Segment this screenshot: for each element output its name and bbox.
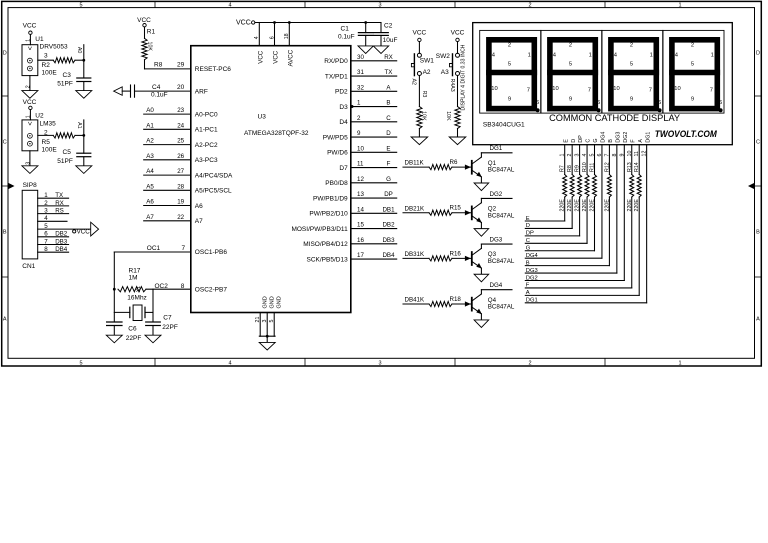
svg-text:C1: C1 <box>341 25 350 32</box>
svg-text:10K: 10K <box>146 42 152 52</box>
svg-text:DG1: DG1 <box>490 145 503 152</box>
svg-text:D4: D4 <box>339 119 348 126</box>
svg-text:A4/PC4/SDA: A4/PC4/SDA <box>195 172 233 179</box>
svg-text:8: 8 <box>44 246 48 253</box>
svg-text:G: G <box>593 138 599 142</box>
svg-text:0.1uF: 0.1uF <box>151 92 168 99</box>
svg-text:R9: R9 <box>575 165 581 172</box>
svg-text:DB2: DB2 <box>382 222 395 229</box>
svg-text:R7: R7 <box>560 165 566 172</box>
svg-text:5: 5 <box>44 223 48 230</box>
svg-text:OSC1-PB6: OSC1-PB6 <box>195 249 228 256</box>
svg-text:DG4: DG4 <box>526 253 539 259</box>
svg-text:DRV5053: DRV5053 <box>40 44 68 51</box>
svg-text:DG1: DG1 <box>526 298 538 304</box>
svg-text:DB21K: DB21K <box>405 205 425 212</box>
svg-text:DG1: DG1 <box>645 132 651 143</box>
svg-text:SW1: SW1 <box>420 58 434 65</box>
svg-text:1: 1 <box>589 52 592 58</box>
svg-text:R8: R8 <box>154 62 163 69</box>
svg-text:R13: R13 <box>627 162 633 172</box>
svg-text:3: 3 <box>44 53 48 60</box>
svg-text:1: 1 <box>711 52 714 58</box>
svg-text:R16: R16 <box>450 250 462 257</box>
svg-text:A5: A5 <box>146 183 154 190</box>
svg-text:VCC: VCC <box>273 50 280 64</box>
svg-text:PW/PB2/D10: PW/PB2/D10 <box>309 211 348 218</box>
svg-text:D: D <box>3 51 7 57</box>
svg-text:B: B <box>526 260 530 266</box>
svg-text:1: 1 <box>678 2 681 8</box>
svg-text:7: 7 <box>527 88 530 94</box>
svg-text:C: C <box>386 115 391 122</box>
svg-text:G: G <box>526 246 531 252</box>
svg-text:5: 5 <box>630 61 633 67</box>
svg-text:51PF: 51PF <box>57 81 73 88</box>
svg-text:0.1uF: 0.1uF <box>338 34 355 41</box>
svg-text:19: 19 <box>177 199 184 206</box>
svg-text:51PF: 51PF <box>57 158 73 165</box>
svg-text:5: 5 <box>79 2 82 8</box>
svg-text:DB11K: DB11K <box>405 160 425 167</box>
svg-text:U2: U2 <box>35 113 44 120</box>
svg-text:DB1: DB1 <box>382 206 395 213</box>
svg-text:BC847AL: BC847AL <box>488 167 515 174</box>
svg-text:C2: C2 <box>384 23 393 30</box>
svg-text:GND: GND <box>277 296 283 308</box>
svg-text:ATMEGA328TQPF-32: ATMEGA328TQPF-32 <box>244 130 309 137</box>
svg-text:9: 9 <box>630 97 633 103</box>
svg-text:9: 9 <box>357 130 361 137</box>
svg-text:PW/PB1/D9: PW/PB1/D9 <box>313 195 348 202</box>
svg-text:4: 4 <box>228 2 231 8</box>
svg-text:2: 2 <box>630 42 633 48</box>
svg-text:220E: 220E <box>627 199 633 212</box>
svg-text:5: 5 <box>508 61 511 67</box>
svg-text:X1: X1 <box>136 286 142 292</box>
svg-text:A6: A6 <box>146 199 154 206</box>
svg-text:1M: 1M <box>129 275 138 282</box>
svg-text:GND: GND <box>263 296 269 308</box>
svg-text:VCC: VCC <box>23 22 37 29</box>
svg-text:F: F <box>526 283 530 289</box>
svg-text:D3: D3 <box>339 104 348 111</box>
svg-text:R15: R15 <box>450 205 462 212</box>
svg-text:MOSI/PW/PB3/D11: MOSI/PW/PB3/D11 <box>291 226 348 233</box>
svg-text:DP: DP <box>526 231 534 237</box>
svg-text:7: 7 <box>588 88 591 94</box>
svg-text:BC847AL: BC847AL <box>488 258 515 265</box>
svg-text:11: 11 <box>357 161 364 168</box>
svg-text:24: 24 <box>177 122 184 129</box>
svg-text:>: > <box>25 46 32 50</box>
svg-text:10: 10 <box>491 86 497 92</box>
svg-text:2: 2 <box>508 42 511 48</box>
svg-text:DB31K: DB31K <box>405 251 425 258</box>
svg-text:1: 1 <box>650 52 653 58</box>
svg-text:GND: GND <box>270 296 276 308</box>
svg-text:A: A <box>526 290 530 296</box>
svg-text:D: D <box>571 139 577 143</box>
svg-text:BC847AL: BC847AL <box>488 304 515 311</box>
svg-text:A2: A2 <box>423 69 431 76</box>
svg-text:5: 5 <box>79 360 82 366</box>
svg-text:CN1: CN1 <box>22 263 35 270</box>
svg-text:A2: A2 <box>411 79 417 86</box>
svg-text:3: 3 <box>378 360 381 366</box>
svg-text:220E: 220E <box>575 199 581 212</box>
svg-text:100E: 100E <box>42 147 58 154</box>
svg-text:5: 5 <box>569 61 572 67</box>
svg-text:3: 3 <box>378 2 381 8</box>
svg-text:VCC: VCC <box>413 30 427 37</box>
svg-text:3: 3 <box>44 208 48 215</box>
svg-text:SB3404CUG1: SB3404CUG1 <box>483 122 525 129</box>
svg-text:4: 4 <box>228 360 231 366</box>
svg-text:2: 2 <box>528 2 531 8</box>
svg-text:5: 5 <box>269 320 275 323</box>
svg-text:4: 4 <box>254 36 260 39</box>
svg-text:7: 7 <box>44 238 48 245</box>
svg-text:7: 7 <box>710 88 713 94</box>
svg-text:BC847AL: BC847AL <box>488 212 515 219</box>
svg-text:18: 18 <box>284 33 290 39</box>
svg-text:10: 10 <box>552 86 558 92</box>
svg-text:220E: 220E <box>567 199 573 212</box>
svg-text:DG3: DG3 <box>615 132 621 143</box>
svg-text:A0: A0 <box>76 47 82 54</box>
svg-text:F: F <box>387 161 391 168</box>
svg-text:VCC: VCC <box>236 19 251 26</box>
svg-text:DP: DP <box>384 191 393 198</box>
svg-text:A2-PC2: A2-PC2 <box>195 142 218 149</box>
svg-text:C5: C5 <box>63 149 72 156</box>
svg-text:3: 3 <box>262 320 268 323</box>
svg-text:10: 10 <box>613 86 619 92</box>
svg-text:10K: 10K <box>421 111 427 121</box>
svg-text:25: 25 <box>177 138 184 145</box>
svg-text:220E: 220E <box>604 199 610 212</box>
svg-text:A4: A4 <box>146 168 154 175</box>
svg-text:RX: RX <box>384 54 393 61</box>
svg-text:PW/D6: PW/D6 <box>327 150 348 157</box>
svg-text:10uF: 10uF <box>383 37 398 44</box>
svg-text:220E: 220E <box>634 199 640 212</box>
svg-text:A6: A6 <box>195 203 203 210</box>
svg-text:220E: 220E <box>582 199 588 212</box>
svg-text:PW/PD5: PW/PD5 <box>323 134 348 141</box>
svg-text:DISPLAY 4 DIGIT 0.33 INCH: DISPLAY 4 DIGIT 0.33 INCH <box>460 44 466 110</box>
svg-text:5: 5 <box>691 61 694 67</box>
svg-text:10: 10 <box>674 86 680 92</box>
svg-text:6: 6 <box>536 100 539 106</box>
svg-text:D7: D7 <box>339 165 348 172</box>
svg-text:DG3: DG3 <box>490 236 503 243</box>
svg-text:OC1: OC1 <box>147 245 161 252</box>
svg-text:27: 27 <box>177 168 184 175</box>
svg-text:A0: A0 <box>146 107 154 114</box>
svg-text:R4A3: R4A3 <box>449 79 455 92</box>
svg-text:9: 9 <box>691 97 694 103</box>
svg-text:VCC: VCC <box>137 17 151 24</box>
svg-text:DG2: DG2 <box>526 275 538 281</box>
svg-text:7: 7 <box>182 245 186 252</box>
svg-text:TX/PD1: TX/PD1 <box>325 73 348 80</box>
svg-text:A7: A7 <box>195 218 203 225</box>
svg-text:7: 7 <box>649 88 652 94</box>
svg-text:B: B <box>386 100 390 107</box>
svg-text:15: 15 <box>357 222 364 229</box>
svg-text:2: 2 <box>569 42 572 48</box>
svg-text:C7: C7 <box>163 315 172 322</box>
svg-text:A1: A1 <box>146 122 154 129</box>
svg-text:U1: U1 <box>35 36 44 43</box>
svg-text:1: 1 <box>528 52 531 58</box>
svg-text:C6: C6 <box>128 326 137 333</box>
svg-text:16Mhz: 16Mhz <box>127 294 147 301</box>
svg-text:22PF: 22PF <box>162 324 178 331</box>
svg-text:C: C <box>586 139 592 143</box>
svg-text:10K: 10K <box>445 111 451 121</box>
svg-text:R14: R14 <box>634 162 640 172</box>
svg-text:DB41K: DB41K <box>405 297 425 304</box>
svg-text:1: 1 <box>357 100 361 107</box>
svg-text:R12: R12 <box>604 162 610 172</box>
svg-text:A: A <box>3 317 7 323</box>
svg-text:2: 2 <box>357 115 361 122</box>
svg-text:28: 28 <box>177 183 184 190</box>
svg-text:2: 2 <box>691 42 694 48</box>
svg-text:A3-PC3: A3-PC3 <box>195 157 218 164</box>
svg-text:DG2: DG2 <box>623 132 629 143</box>
svg-text:R10: R10 <box>582 162 588 172</box>
svg-text:SIP8: SIP8 <box>23 182 37 189</box>
svg-text:12: 12 <box>357 176 364 183</box>
svg-text:RS: RS <box>55 208 64 215</box>
svg-text:R8: R8 <box>567 165 573 172</box>
svg-text:31: 31 <box>357 69 364 76</box>
svg-text:1: 1 <box>44 192 48 199</box>
svg-text:D: D <box>386 130 391 137</box>
svg-text:VCC: VCC <box>23 99 37 106</box>
svg-text:220E: 220E <box>590 199 596 212</box>
svg-text:22: 22 <box>177 214 184 221</box>
svg-text:>: > <box>25 122 32 126</box>
svg-text:A3: A3 <box>441 69 449 76</box>
svg-text:R11: R11 <box>590 163 596 172</box>
svg-text:30: 30 <box>357 54 364 61</box>
svg-text:E: E <box>563 139 569 143</box>
svg-text:R6: R6 <box>450 159 458 166</box>
svg-text:RX/PD0: RX/PD0 <box>324 58 348 65</box>
svg-text:6: 6 <box>269 36 275 39</box>
svg-text:6: 6 <box>658 100 661 106</box>
svg-text:6: 6 <box>44 231 48 238</box>
svg-text:VCC: VCC <box>451 30 465 37</box>
svg-text:23: 23 <box>177 107 184 114</box>
svg-text:220E: 220E <box>560 199 566 212</box>
svg-text:A: A <box>638 139 644 143</box>
svg-text:4: 4 <box>44 215 48 222</box>
svg-text:PB0/D8: PB0/D8 <box>325 180 348 187</box>
svg-text:RESET-PC6: RESET-PC6 <box>195 66 232 73</box>
svg-text:A7: A7 <box>146 214 154 221</box>
svg-text:DG4: DG4 <box>601 132 607 143</box>
svg-text:TX: TX <box>385 69 393 76</box>
svg-text:PD2: PD2 <box>335 89 348 96</box>
svg-text:R18: R18 <box>450 296 462 303</box>
svg-text:17: 17 <box>357 252 364 259</box>
svg-text:RX: RX <box>55 200 64 207</box>
svg-text:9: 9 <box>569 97 572 103</box>
svg-text:A0-PC0: A0-PC0 <box>195 111 218 118</box>
svg-text:E: E <box>526 216 530 222</box>
svg-text:DG3: DG3 <box>526 268 538 274</box>
svg-text:B: B <box>3 230 7 236</box>
svg-text:32: 32 <box>357 84 364 91</box>
svg-text:R5: R5 <box>42 139 51 146</box>
svg-text:9: 9 <box>508 97 511 103</box>
svg-text:VCC: VCC <box>77 229 91 236</box>
svg-text:10: 10 <box>357 145 364 152</box>
svg-text:G: G <box>386 176 391 183</box>
svg-text:AVCC: AVCC <box>288 49 295 66</box>
svg-text:21: 21 <box>255 317 261 323</box>
svg-text:6: 6 <box>597 100 600 106</box>
svg-text:SW2: SW2 <box>436 53 450 60</box>
svg-text:D: D <box>526 223 530 229</box>
svg-text:A3: A3 <box>146 153 154 160</box>
svg-text:R17: R17 <box>129 268 141 275</box>
svg-text:C3: C3 <box>63 72 72 79</box>
svg-text:MISO/PB4/D12: MISO/PB4/D12 <box>303 241 348 248</box>
svg-text:DB4: DB4 <box>55 246 68 253</box>
svg-text:R1: R1 <box>147 29 156 36</box>
svg-text:14: 14 <box>357 206 364 213</box>
svg-text:DB2: DB2 <box>55 231 68 238</box>
svg-text:E: E <box>386 145 390 152</box>
svg-text:LM35: LM35 <box>40 120 57 127</box>
svg-text:U3: U3 <box>258 114 267 121</box>
svg-text:C: C <box>756 140 760 146</box>
svg-text:29: 29 <box>177 62 185 69</box>
svg-text:A: A <box>756 317 760 323</box>
svg-text:C: C <box>526 238 530 244</box>
svg-text:DP: DP <box>578 135 584 143</box>
svg-text:DG4: DG4 <box>490 282 503 289</box>
svg-text:26: 26 <box>177 153 184 160</box>
svg-text:A1: A1 <box>76 122 82 129</box>
svg-text:13: 13 <box>357 191 364 198</box>
svg-text:C: C <box>3 140 7 146</box>
svg-text:22PF: 22PF <box>126 335 142 342</box>
svg-text:SCK/PB5/D13: SCK/PB5/D13 <box>307 256 349 263</box>
svg-text:R3: R3 <box>421 91 427 98</box>
svg-text:2: 2 <box>44 200 48 207</box>
svg-text:A1-PC1: A1-PC1 <box>195 127 218 134</box>
svg-text:A5/PC5/SCL: A5/PC5/SCL <box>195 188 232 195</box>
svg-text:20: 20 <box>177 84 185 91</box>
svg-text:ARF: ARF <box>195 89 208 96</box>
svg-text:6: 6 <box>719 100 722 106</box>
svg-text:TWOVOLT.COM: TWOVOLT.COM <box>655 128 717 139</box>
svg-text:DB3: DB3 <box>382 237 395 244</box>
svg-text:DG2: DG2 <box>490 191 503 198</box>
svg-text:1: 1 <box>678 360 681 366</box>
svg-text:DB4: DB4 <box>382 252 395 259</box>
svg-text:TX: TX <box>55 192 63 199</box>
svg-text:R2: R2 <box>42 62 51 69</box>
svg-text:A2: A2 <box>146 138 154 145</box>
svg-text:COMMON CATHODE DISPLAY: COMMON CATHODE DISPLAY <box>549 113 680 123</box>
svg-text:C4: C4 <box>152 84 161 91</box>
svg-text:B: B <box>608 139 614 143</box>
svg-text:100E: 100E <box>42 70 58 77</box>
svg-text:B: B <box>756 230 760 236</box>
svg-text:16: 16 <box>357 237 364 244</box>
svg-text:OSC2-PB7: OSC2-PB7 <box>195 286 228 293</box>
svg-text:D: D <box>756 51 760 57</box>
svg-text:2: 2 <box>528 360 531 366</box>
svg-text:VCC: VCC <box>258 50 265 64</box>
svg-text:DB3: DB3 <box>55 238 68 245</box>
